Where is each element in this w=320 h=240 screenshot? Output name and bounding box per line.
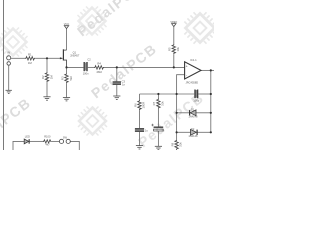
ground jack sleeve: [6, 90, 12, 93]
svg-text:VCC: VCC: [64, 22, 70, 26]
resistor R8: [175, 140, 178, 150]
node leg B junction: [157, 93, 159, 95]
diode D2: [191, 129, 198, 135]
svg-text:JRC4558D: JRC4558D: [185, 80, 198, 84]
resistor R9: [43, 140, 51, 143]
svg-text:R2: R2: [41, 75, 45, 79]
capacitor C2: [84, 62, 88, 71]
svg-text:IC1.1: IC1.1: [190, 58, 197, 62]
wire R6 to C5: [139, 110, 141, 128]
svg-text:100p: 100p: [193, 98, 199, 102]
capacitor C5: [135, 128, 144, 132]
wire middle rail to R8: [176, 132, 178, 140]
node D1 right junction: [210, 112, 212, 114]
svg-text:R4: R4: [97, 61, 101, 65]
wire source junction to C2: [67, 66, 84, 68]
svg-text:IN: IN: [7, 50, 10, 54]
jack IN tip pad: [7, 56, 11, 60]
svg-text:R6: R6: [133, 103, 137, 107]
LED D3: [24, 139, 30, 144]
wire leg B down from rail: [157, 94, 159, 99]
wire R5 to main line: [173, 54, 175, 67]
svg-text:5k6: 5k6: [69, 76, 73, 81]
wire D2 branch right: [197, 131, 211, 133]
svg-text:PedalPCB: PedalPCB: [74, 0, 146, 39]
wire VCC down to Q1 drain: [66, 29, 68, 50]
svg-text:1N4148: 1N4148: [188, 134, 198, 138]
node D1 left junction: [176, 112, 178, 114]
svg-text:R3: R3: [61, 76, 65, 80]
wire feedback node to C4: [177, 93, 195, 95]
wire R7 to C6: [157, 109, 159, 127]
transistor Q1 source lead: [64, 60, 67, 67]
wire C3 to ground: [116, 85, 118, 96]
wire R2 to ground: [46, 82, 48, 97]
transistor Q1 gate arrow: [60, 57, 63, 59]
wire C2 to R4: [88, 66, 94, 68]
pad SW B: [66, 139, 70, 143]
node C4 out junction: [210, 93, 212, 95]
svg-text:100n: 100n: [83, 71, 89, 75]
svg-text:10k: 10k: [161, 101, 165, 106]
svg-text:D1: D1: [191, 107, 195, 111]
wire pads to right drop: [70, 141, 79, 150]
wire feedback rail: [140, 93, 177, 95]
svg-text:R8: R8: [170, 142, 174, 146]
node source junction: [65, 66, 67, 68]
svg-text:R5: R5: [168, 47, 172, 51]
resistor R3: [65, 73, 68, 83]
wire op-amp inverting input: [177, 75, 185, 94]
wire R9 to pads: [51, 140, 59, 142]
wire R1 to gate junction: [35, 57, 47, 59]
svg-text:10k: 10k: [176, 46, 180, 51]
wire R4 to C3 junction and on to op-amp input: [104, 66, 184, 68]
wire LED chain left drop: [13, 141, 24, 150]
ground R3: [63, 98, 70, 101]
resistor R4: [94, 66, 104, 69]
svg-text:100R: 100R: [142, 102, 146, 109]
svg-text:LED: LED: [25, 134, 30, 138]
svg-text:+: +: [186, 65, 188, 69]
transistor Q1 channel bar: [63, 49, 64, 60]
node D2 right junction: [210, 131, 212, 133]
resistor R5: [172, 44, 175, 54]
wire VREF down to R5: [173, 27, 175, 44]
wire C6 to ground: [157, 131, 159, 146]
jack IN sleeve pad: [7, 62, 11, 66]
resistor R7: [157, 99, 160, 109]
wire D1 branch right: [196, 112, 211, 114]
wire leg A down from rail: [139, 94, 141, 100]
transistor Q1 drain lead: [64, 49, 67, 51]
ground C6: [155, 146, 162, 149]
node feedback junction: [176, 93, 178, 95]
svg-text:R100: R100: [44, 134, 51, 138]
wire gate junction to Q1 gate: [47, 57, 63, 59]
ground C3: [113, 96, 120, 99]
wire LED to R9: [29, 140, 43, 142]
junction dots: [46, 57, 212, 133]
svg-text:1n: 1n: [122, 83, 125, 87]
svg-text:R1: R1: [28, 52, 32, 56]
node C3 junction: [116, 66, 118, 68]
wire junction down to R2: [46, 58, 48, 72]
wire source junction down to R3: [66, 67, 68, 73]
resistor R2: [45, 72, 48, 82]
ground C5: [136, 146, 143, 149]
svg-text:1M: 1M: [49, 75, 53, 80]
pad SW A: [59, 139, 63, 143]
node gate junction: [46, 57, 48, 59]
VCC symbol: [64, 26, 68, 29]
svg-text:4k7: 4k7: [46, 143, 51, 147]
node D2 left junction: [176, 131, 178, 133]
svg-text:PedalPCB: PedalPCB: [135, 89, 207, 150]
svg-text:D2: D2: [191, 127, 195, 131]
node R5 junction: [173, 66, 175, 68]
capacitor C6 electrolytic: [154, 127, 164, 132]
svg-text:10k: 10k: [179, 142, 183, 147]
svg-text:1M: 1M: [28, 61, 33, 65]
node output junction: [210, 69, 212, 71]
svg-text:2M2: 2M2: [96, 70, 102, 74]
wire jack sleeve to ground: [8, 65, 10, 90]
svg-text:1N4148: 1N4148: [188, 115, 198, 119]
wire C4 to output rail: [198, 93, 211, 95]
diode D1: [189, 110, 196, 116]
C6 plus sign: [151, 124, 153, 126]
svg-text:R7: R7: [152, 101, 156, 105]
wire C3 junction down: [116, 67, 118, 81]
resistor R1: [25, 57, 35, 60]
wire jack tip to R1: [11, 57, 25, 59]
wire D1 branch left: [177, 112, 190, 114]
capacitor C4: [194, 90, 198, 99]
ground R2: [43, 97, 50, 100]
op-amp U1: [185, 62, 201, 79]
capacitor C3: [113, 81, 121, 85]
svg-text:2N5457: 2N5457: [70, 53, 80, 57]
wire R3 to ground: [66, 83, 68, 97]
wire output rail down: [210, 70, 212, 132]
svg-text:C2: C2: [87, 58, 91, 62]
wire op-amp output: [201, 69, 214, 71]
VREF symbol: [172, 24, 176, 27]
frame border: [3, 0, 5, 150]
svg-text:SW: SW: [63, 135, 68, 139]
wire middle rail down: [176, 94, 178, 132]
wire D2 branch left: [177, 131, 191, 133]
svg-text:VREF: VREF: [170, 20, 177, 24]
resistor R6: [138, 100, 141, 110]
wire C5 to ground: [139, 132, 141, 146]
